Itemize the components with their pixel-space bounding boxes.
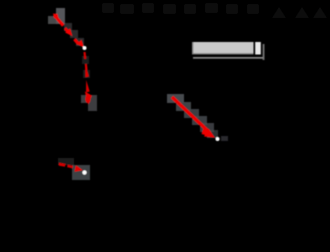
- artifact blocks along arrow C: [167, 94, 218, 138]
- bar shadow vertical: [263, 44, 265, 60]
- bar shadow horizontal: [193, 57, 263, 59]
- arrow C head: [202, 127, 216, 138]
- node: click dot 1: [83, 46, 87, 50]
- artifact block at arrow A start: [48, 8, 84, 46]
- arrow B head: [85, 92, 92, 105]
- arrow A (dashed red, chained heads): [53, 14, 84, 48]
- arrow C (solid red): [172, 97, 209, 132]
- node: click dot 3: [82, 170, 86, 174]
- progress bar end segment: [255, 42, 261, 55]
- node: click dot 2: [216, 137, 220, 141]
- artifact block at arrow D: [58, 158, 90, 180]
- artifact blocks along arrow B: [81, 56, 97, 111]
- progress bar track: [192, 42, 254, 55]
- faint toolbar icon row: [102, 3, 259, 14]
- arrow B (dashed red, downward): [85, 52, 87, 70]
- arrow D (red, short, rightward): [59, 163, 66, 167]
